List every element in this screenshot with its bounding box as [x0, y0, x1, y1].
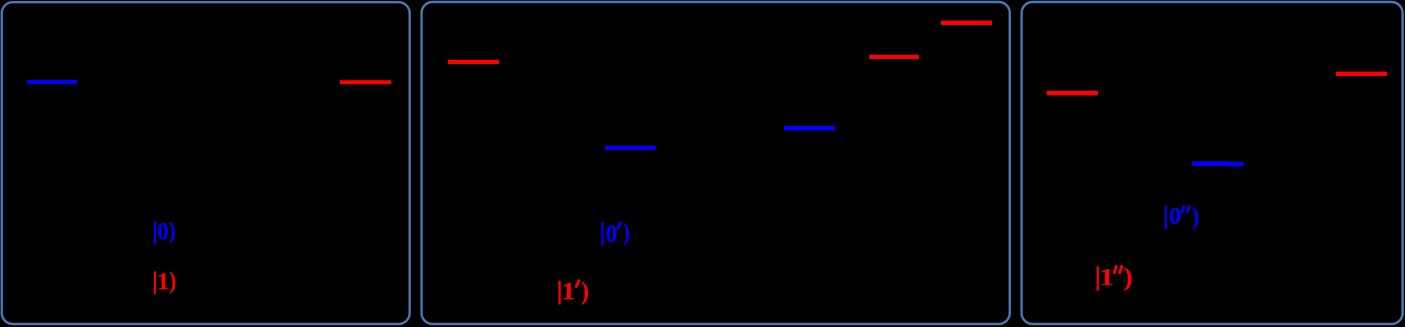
panel1 blue level line |0>: [27, 80, 77, 84]
label |1''> red panel3: [1097, 265, 1132, 291]
panel2 blue level line lower: [605, 146, 656, 150]
panel2 red level line top-right: [941, 21, 992, 25]
panel2 blue level line upper: [784, 126, 835, 130]
panel2 red level line left: [448, 60, 499, 64]
panel2 red level line mid-right: [869, 55, 919, 59]
label |1> red panel1: [154, 271, 175, 294]
panel 1 rounded box: [2, 2, 410, 324]
panel3 red level line left: [1047, 91, 1098, 96]
label |1'> red panel2: [558, 280, 588, 305]
panel1 red level line |1>: [340, 80, 391, 84]
label |0> blue panel1: [154, 221, 175, 245]
label |0'> blue panel2: [601, 222, 629, 246]
panel3 blue level line (two overlapped segments): [1192, 161, 1230, 166]
label |0''> blue panel3: [1165, 206, 1198, 230]
panel 3 rounded box: [1022, 2, 1403, 324]
panel 2 rounded box: [422, 2, 1010, 324]
panel3 red level line right: [1336, 72, 1387, 76]
